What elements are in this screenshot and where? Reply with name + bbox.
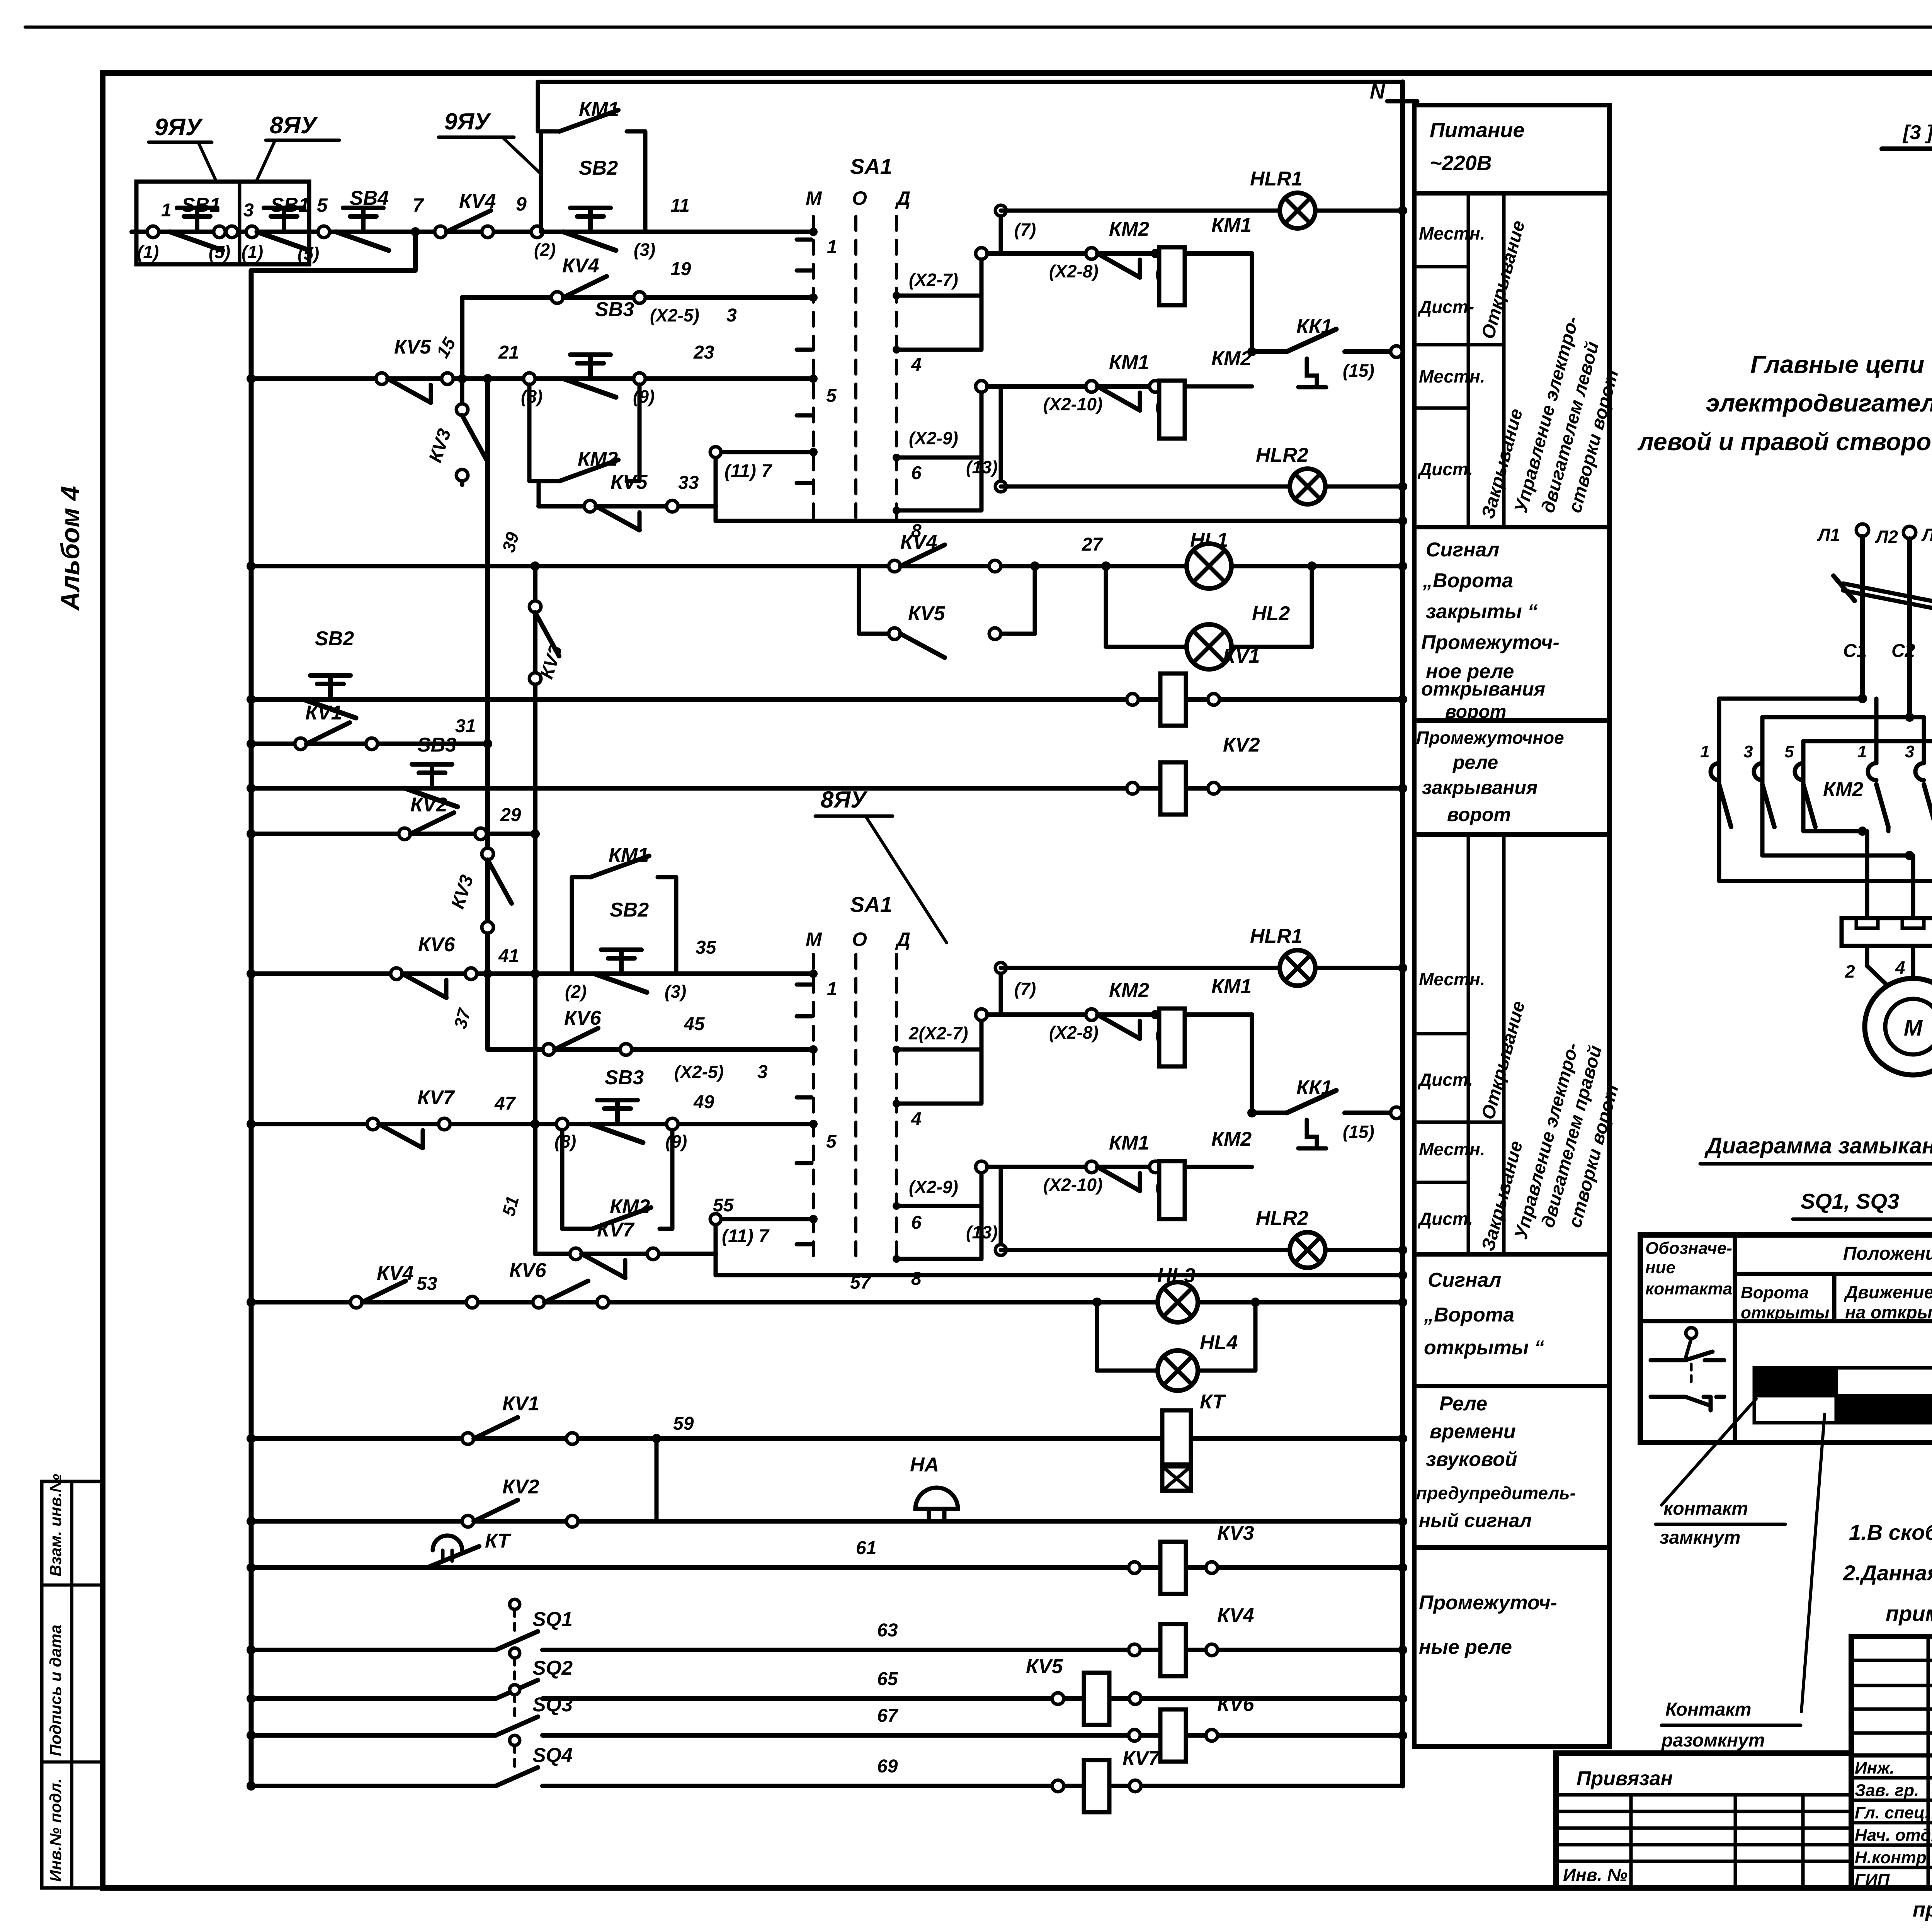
svg-text:КТ: КТ (485, 1530, 512, 1552)
branch HL4 parallel (1095, 1302, 1099, 1371)
wire R9 row (251, 832, 535, 836)
wire X2-9 to KM1 contact row (980, 386, 984, 457)
wire R8 row (251, 786, 1403, 791)
svg-text:Д: Д (895, 929, 910, 950)
contact KV4 row14 (350, 1296, 362, 1308)
svg-text:С1: С1 (1843, 641, 1867, 661)
svg-text:HLR2: HLR2 (1256, 1207, 1308, 1230)
svg-text:КМ1: КМ1 (1109, 1132, 1149, 1154)
svg-text:КV7: КV7 (1122, 1747, 1160, 1770)
svg-text:Дист-: Дист- (1417, 297, 1474, 317)
svg-text:(Х2-10): (Х2-10) (1043, 394, 1102, 414)
contact symbol left table (1686, 1328, 1697, 1338)
svg-text:Местн.: Местн. (1419, 223, 1485, 243)
contact KV5 row4 (584, 500, 596, 512)
wire R7 row (251, 742, 488, 746)
svg-text:КМ1: КМ1 (1109, 351, 1149, 374)
svg-text:КV4: КV4 (377, 1262, 414, 1284)
svg-text:6: 6 (911, 1213, 922, 1233)
svg-text:КV2: КV2 (1223, 734, 1260, 756)
svg-text:1: 1 (1857, 742, 1867, 761)
SA1 upper tick marks (797, 238, 811, 242)
pushbutton SB1 cell1 (147, 226, 159, 238)
svg-text:Реле: Реле (1439, 1393, 1487, 1415)
KM2 pole bottoms to phases (1717, 827, 1721, 881)
pushbutton SB3 row3 (524, 373, 535, 384)
svg-text:КV7: КV7 (597, 1219, 635, 1241)
svg-text:закрыты “: закрыты “ (1426, 600, 1537, 623)
svg-text:SB3: SB3 (417, 734, 456, 756)
svg-text:23: 23 (693, 342, 714, 363)
svg-text:звуковой: звуковой (1426, 1448, 1517, 1471)
terminal L1 (1856, 524, 1869, 536)
svg-text:SB2: SB2 (315, 628, 354, 650)
svg-text:Диаграмма замыканий контак: Диаграмма замыканий контактов конечных в… (1704, 1133, 1932, 1158)
svg-text:9: 9 (516, 193, 527, 215)
junction C2 (1905, 713, 1914, 722)
svg-text:2.Данная схема разработана: 2.Данная схема разработана для распашных… (1843, 1561, 1932, 1585)
branch KM1 over SB2 (539, 131, 543, 232)
svg-text:(1): (1) (137, 242, 159, 262)
branch KM2 under SB3 block2 (560, 1130, 565, 1229)
svg-text:КV4: КV4 (1217, 1604, 1254, 1627)
svg-text:SB2: SB2 (610, 899, 649, 921)
svg-text:1: 1 (1700, 742, 1709, 761)
wire R2 row (462, 295, 813, 300)
svg-text:Местн.: Местн. (1419, 969, 1485, 989)
SA1 contact 5 (809, 374, 818, 383)
svg-text:(Х2-9): (Х2-9) (909, 428, 958, 448)
description column box Сигнал Ворота открыты (1414, 1254, 1609, 1386)
bar top line (1836, 1366, 1932, 1370)
svg-text:Л3: Л3 (1921, 525, 1932, 545)
wire R4 row (539, 504, 716, 509)
wire KK1 to N rail (1391, 346, 1402, 357)
pushbutton SB3 row12 (556, 1118, 568, 1130)
wire HLR2 row block2 (999, 1167, 1003, 1250)
SA1 lower tick marks (797, 983, 811, 987)
switch SA1 upper dashed columns (812, 216, 815, 526)
svg-text:1.В скобках указаны номера: 1.В скобках указаны номера зажимов станц… (1849, 1520, 1932, 1544)
svg-text:НА: НА (910, 1454, 939, 1476)
svg-text:Гл. спец.: Гл. спец. (1855, 1803, 1930, 1822)
branch HL2 parallel (1104, 566, 1108, 647)
svg-text:КV5: КV5 (611, 471, 648, 493)
wire R14 row (251, 1300, 1403, 1304)
svg-text:М: М (806, 929, 822, 950)
svg-text:Зав. гр.: Зав. гр. (1855, 1781, 1919, 1800)
svg-text:КV5: КV5 (394, 336, 432, 358)
N rail (right) (1400, 82, 1405, 1786)
wire R1 main row (132, 230, 813, 234)
svg-text:61: 61 (856, 1538, 876, 1558)
description column box control right gate (1414, 835, 1609, 1254)
svg-text:КМ2: КМ2 (1211, 347, 1252, 370)
svg-text:Л1: Л1 (1817, 525, 1840, 545)
svg-text:1: 1 (827, 979, 837, 999)
svg-text:КМ1: КМ1 (1211, 214, 1252, 236)
svg-text:4: 4 (911, 355, 922, 375)
contact KV7 row13 (570, 1248, 582, 1260)
svg-text:Положение ворот: Положение ворот (1843, 1243, 1932, 1264)
annex rows (1556, 1793, 1851, 1797)
wire R12 row (251, 1122, 813, 1126)
contact KV3 on VA upper (482, 848, 493, 860)
limit switch SQ2 (510, 1648, 520, 1658)
contact KM2 block1 (1086, 248, 1097, 259)
svg-text:3: 3 (757, 1062, 768, 1082)
svg-text:КV6: КV6 (1217, 1693, 1255, 1716)
svg-text:КМ1: КМ1 (1211, 975, 1252, 998)
svg-text:49: 49 (693, 1092, 714, 1112)
svg-text:HL2: HL2 (1252, 602, 1290, 625)
svg-text:3: 3 (726, 305, 737, 326)
branch KM2 under SB3 (527, 384, 532, 481)
svg-text:5: 5 (317, 194, 328, 216)
svg-text:(5): (5) (209, 242, 230, 262)
contact KM1 block1 (1086, 381, 1097, 392)
svg-text:(8): (8) (554, 1131, 576, 1151)
svg-text:контакта: контакта (1645, 1279, 1732, 1298)
svg-text:Ворота: Ворота (1741, 1283, 1809, 1302)
wire R13 row (535, 1252, 716, 1256)
bar outline bottom-left (1754, 1396, 1836, 1423)
svg-text:М: М (1904, 1015, 1923, 1041)
contact KV4 row5 (889, 560, 900, 572)
wire air-curtain row (1882, 146, 1932, 151)
svg-text:(5): (5) (298, 243, 319, 264)
svg-text:6: 6 (911, 463, 922, 483)
wire X2-7 to KM2 contact row (980, 253, 984, 296)
leader разомкнут (1801, 1414, 1825, 1712)
wire X2-9L to KM1 contact row (980, 1167, 984, 1206)
wire SQ4 row left (251, 1784, 496, 1788)
block1 bottom border wire (714, 506, 718, 521)
table SQ1 SQ3 (1640, 1235, 1932, 1442)
svg-text:31: 31 (455, 716, 476, 736)
svg-text:8: 8 (911, 1269, 922, 1289)
contact KT delayed (427, 1546, 479, 1568)
svg-text:5: 5 (1784, 742, 1794, 761)
riser 59 to R16 (655, 1439, 659, 1521)
svg-text:(1): (1) (241, 242, 263, 262)
contact KV6 row14 (533, 1296, 544, 1308)
contact KM1 pole2 (1915, 763, 1924, 780)
contact KV1 row15 (462, 1433, 474, 1444)
svg-text:КV2: КV2 (502, 1476, 539, 1498)
stub to SA1 contact 7 (714, 452, 718, 506)
wire R17 row (251, 1565, 1403, 1570)
thermal contact KK1 block1 (1252, 349, 1287, 354)
svg-text:SA1: SA1 (850, 154, 892, 179)
svg-text:применима для распашных во: применима для распашных ворот Вр-2 . (1886, 1601, 1932, 1626)
svg-text:5: 5 (826, 386, 837, 406)
contact KV2 row16 (462, 1515, 474, 1527)
svg-text:прилуцкая: прилуцкая (1913, 1898, 1932, 1921)
SA1 contact 7 (809, 448, 818, 456)
svg-text:Сигнал: Сигнал (1426, 539, 1499, 561)
junction C1 (1858, 694, 1867, 703)
svg-text:1: 1 (161, 200, 172, 221)
wire SQ2 row left (251, 1696, 496, 1701)
terminal L2 (1903, 526, 1916, 539)
SA1-2 contact 1 (809, 969, 818, 978)
stub to SA1-2 contact 7 (714, 1219, 718, 1254)
svg-text:69: 69 (877, 1756, 898, 1777)
svg-text:времени: времени (1430, 1420, 1516, 1443)
description column box control left gate (1414, 193, 1609, 527)
contact KV3 on V1196 (460, 379, 464, 404)
description column box Промежуточное реле закрывания ворот (1414, 721, 1609, 835)
svg-text:КМ2: КМ2 (1211, 1128, 1252, 1150)
svg-text:Дист.: Дист. (1417, 459, 1473, 479)
svg-text:8ЯУ: 8ЯУ (270, 112, 318, 139)
wire SQ1 row right (543, 1648, 1403, 1652)
svg-text:2(Х2-7): 2(Х2-7) (908, 1023, 968, 1043)
svg-text:33: 33 (678, 473, 699, 493)
title block columns (1927, 1636, 1930, 1888)
riser R2-R3 (460, 298, 464, 379)
title block left annex (1556, 1753, 1851, 1888)
wire KM2 contact row block2 (987, 1012, 1252, 1017)
svg-text:SB2: SB2 (579, 157, 618, 179)
limit switch SQ4 (510, 1735, 520, 1745)
svg-text:11: 11 (670, 196, 690, 216)
svg-text:Л2: Л2 (1875, 527, 1898, 547)
wire SQ2 row right (543, 1696, 1403, 1701)
svg-text:4: 4 (1895, 957, 1905, 978)
svg-text:КМ2: КМ2 (1823, 778, 1863, 801)
svg-text:63: 63 (877, 1620, 898, 1641)
svg-text:КV7: КV7 (417, 1087, 455, 1109)
svg-text:47: 47 (494, 1094, 516, 1114)
svg-text:(Х2-8): (Х2-8) (1049, 1022, 1099, 1043)
svg-text:КТ: КТ (1200, 1391, 1226, 1413)
branch KM1 over SB2 block2 (570, 877, 574, 974)
svg-text:53: 53 (417, 1274, 437, 1294)
svg-text:HLR2: HLR2 (1256, 444, 1308, 466)
wire R10 row (251, 971, 813, 976)
svg-text:[3 ]: [3 ] (1902, 121, 1932, 144)
svg-text:Контакт: Контакт (1665, 1699, 1751, 1720)
svg-text:ние: ние (1645, 1258, 1675, 1277)
svg-text:закрывания: закрывания (1422, 777, 1537, 798)
wire 9YU block left drop (536, 82, 540, 131)
description column box Сигнал Ворота закрыты (1414, 527, 1609, 721)
description column box Питание 220В (1414, 105, 1609, 193)
svg-text:открыты: открыты (1741, 1303, 1829, 1322)
wire vertical VA (485, 379, 490, 1049)
disconnect switch (1843, 583, 1932, 609)
svg-text:Движение ворот: Движение ворот (1844, 1282, 1932, 1302)
wire R15 row (251, 1436, 1403, 1441)
svg-text:(3): (3) (665, 981, 686, 1002)
wire riser KM2 to R4 (537, 481, 541, 506)
svg-text:SQ3: SQ3 (532, 1694, 573, 1716)
wire KM2 contact row block1 (987, 251, 1252, 256)
svg-text:(Х2-8): (Х2-8) (1049, 261, 1099, 281)
svg-text:(Х2-10): (Х2-10) (1043, 1175, 1102, 1195)
wire KM1 contact row block1 (987, 384, 1159, 389)
svg-text:(11) 7: (11) 7 (722, 1226, 770, 1247)
svg-text:1: 1 (827, 237, 837, 257)
phase drops to KK1 (1865, 831, 1869, 918)
svg-text:Привязан: Привязан (1577, 1767, 1673, 1790)
svg-text:ворот: ворот (1447, 804, 1511, 825)
wire X2-7L to KM2 contact row (980, 1015, 984, 1049)
svg-text:КV6: КV6 (418, 934, 456, 956)
description column box Промежуточные реле (1414, 1548, 1609, 1747)
sheet outer border top (25, 26, 1932, 29)
contact KM1 block2 (1086, 1161, 1097, 1173)
svg-text:(8): (8) (521, 386, 543, 406)
thermal contact KK1 block2 (1252, 1111, 1287, 1115)
svg-text:5: 5 (826, 1131, 837, 1152)
wire KM1 contact row block2 (987, 1165, 1159, 1169)
svg-text:Сигнал: Сигнал (1428, 1269, 1501, 1291)
connector X2-7 bracket lower (893, 1046, 900, 1053)
bar black top-left SQ1 (1754, 1368, 1836, 1396)
svg-text:(3): (3) (634, 240, 655, 260)
svg-text:КV1: КV1 (502, 1393, 539, 1415)
svg-text:3: 3 (1905, 742, 1914, 761)
N rail top segment (538, 80, 1403, 84)
svg-text:КV1: КV1 (305, 702, 342, 724)
svg-text:HLR1: HLR1 (1250, 168, 1303, 190)
svg-text:О: О (852, 929, 867, 950)
limit switch SQ3 (510, 1685, 520, 1695)
switch SA1 lower dashed columns (812, 954, 815, 1264)
wire SQ3 row left (251, 1733, 496, 1738)
contact KV4 row1 (435, 226, 446, 238)
svg-text:Н.контр.: Н.контр. (1855, 1848, 1931, 1867)
svg-text:предупредитель-: предупредитель- (1416, 1483, 1576, 1503)
wire R6 row (251, 697, 1403, 702)
wire coil KM1 to KK1 node (1185, 253, 1252, 254)
svg-text:Инж.: Инж. (1855, 1759, 1895, 1777)
wire SQ1 row left (251, 1648, 496, 1652)
svg-text:ные реле: ные реле (1419, 1636, 1512, 1658)
svg-text:SB1: SB1 (270, 194, 310, 216)
svg-text:3: 3 (243, 200, 254, 221)
phase wire C1 (1860, 536, 1865, 699)
node 5 (318, 226, 330, 238)
svg-text:19: 19 (670, 259, 691, 279)
svg-text:SQ2: SQ2 (532, 1657, 573, 1679)
svg-text:7: 7 (413, 194, 424, 216)
svg-text:57: 57 (850, 1272, 872, 1293)
svg-text:КV6: КV6 (509, 1259, 547, 1282)
svg-text:2: 2 (1845, 961, 1855, 981)
svg-text:открыты “: открыты “ (1424, 1337, 1544, 1359)
svg-text:Главные цепи: Главные цепи (1750, 350, 1924, 378)
svg-text:С2: С2 (1891, 641, 1915, 661)
svg-text:КV3: КV3 (1217, 1522, 1254, 1544)
contact KM2 pole3 (1795, 763, 1803, 780)
contact KV5 row3 (376, 373, 388, 384)
SA1 contact 1 (809, 228, 818, 236)
wire vertical VB (533, 566, 537, 1254)
svg-text:Взам. инв.№: Взам. инв.№ (46, 1474, 65, 1577)
svg-text:на открытие: на открытие (1845, 1302, 1932, 1322)
svg-text:29: 29 (500, 805, 521, 825)
svg-text:(13): (13) (966, 457, 998, 477)
svg-text:КV4: КV4 (562, 255, 599, 277)
svg-text:SQ4: SQ4 (532, 1744, 573, 1767)
svg-text:„Ворота: „Ворота (1423, 1304, 1514, 1326)
svg-text:Подпись и дата: Подпись и дата (46, 1625, 65, 1756)
wire joins below KM1 (1886, 827, 1891, 831)
contact KV2 row9 (399, 828, 410, 840)
svg-text:8ЯУ: 8ЯУ (821, 787, 868, 813)
phase wire C2 (1907, 539, 1912, 717)
svg-text:КV6: КV6 (564, 1007, 602, 1029)
svg-text:О: О (852, 187, 867, 209)
contact KM1 pole1 (1868, 763, 1876, 780)
svg-text:35: 35 (696, 937, 717, 958)
branch KV5 parallel (857, 566, 861, 634)
svg-text:(15): (15) (1343, 1122, 1374, 1142)
svg-text:SQ1: SQ1 (532, 1608, 573, 1631)
margin stamp boxes (42, 1481, 104, 1888)
svg-text:45: 45 (684, 1014, 705, 1034)
thermal relay KK1 box (1842, 918, 1932, 946)
svg-text:SA1: SA1 (850, 892, 892, 917)
svg-text:М: М (806, 187, 822, 209)
svg-text:Местн.: Местн. (1419, 1139, 1485, 1159)
title block main frame (1851, 1636, 1932, 1888)
contact KM2 pole2 (1754, 763, 1762, 780)
svg-text:разомкнут: разомкнут (1661, 1730, 1765, 1751)
svg-text:контакт: контакт (1663, 1498, 1748, 1519)
svg-text:27: 27 (1082, 534, 1104, 555)
svg-text:Нач. отд.: Нач. отд. (1855, 1826, 1932, 1845)
svg-text:21: 21 (498, 342, 519, 363)
connector X2-9 bracket lower (893, 1202, 900, 1210)
svg-text:HL4: HL4 (1200, 1332, 1238, 1354)
svg-text:~220В: ~220В (1430, 151, 1492, 175)
SA1-2 contact 7 (809, 1215, 818, 1223)
svg-text:9ЯУ: 9ЯУ (444, 109, 492, 134)
connector X2-9 bracket upper (893, 454, 900, 461)
svg-text:Дист.: Дист. (1417, 1070, 1473, 1090)
svg-text:Промежуточ-: Промежуточ- (1419, 1592, 1557, 1614)
svg-text:(13): (13) (966, 1222, 998, 1242)
description column box Реле времени (1414, 1386, 1609, 1548)
terminal box SB1 pair (136, 182, 309, 264)
svg-text:(9): (9) (633, 386, 655, 406)
svg-text:левой и правой створок вор: левой и правой створок ворот (1637, 428, 1932, 456)
wire HLR1 row block1 (999, 211, 1003, 253)
svg-text:Местн.: Местн. (1419, 366, 1485, 386)
svg-text:Инв. №: Инв. № (1563, 1865, 1628, 1885)
svg-text:ный сигнал: ный сигнал (1419, 1510, 1532, 1531)
wire HLR1 row block2 (999, 968, 1003, 1015)
svg-text:КV5: КV5 (908, 602, 946, 625)
contact KV1 row7 (295, 738, 306, 750)
svg-text:(Х2-9): (Х2-9) (909, 1177, 958, 1197)
wire R11 row (488, 1047, 813, 1052)
svg-text:(Х2-5): (Х2-5) (674, 1062, 724, 1082)
svg-text:КМ2: КМ2 (1109, 979, 1149, 1002)
svg-text:9ЯУ: 9ЯУ (155, 114, 203, 141)
contact KV6 row11 (543, 1044, 554, 1055)
crossover wires to KM2 group (1719, 697, 1862, 701)
svg-text:(9): (9) (665, 1131, 687, 1151)
svg-text:3: 3 (1743, 742, 1753, 761)
wire coil KM2 up to KK1 node block2 (1185, 1165, 1252, 1169)
leader 9YU (198, 142, 216, 182)
